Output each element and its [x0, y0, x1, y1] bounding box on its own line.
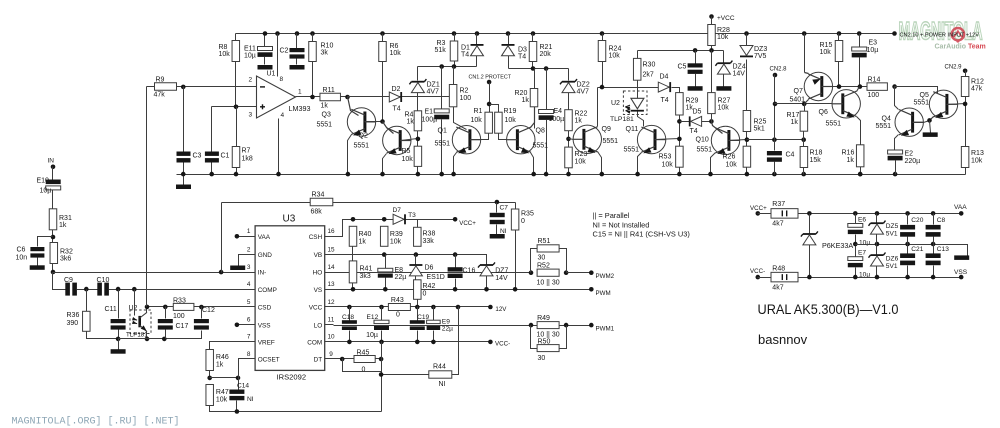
wire	[711, 46, 713, 51]
junction C17	[163, 305, 168, 310]
svg-text:1k: 1k	[59, 222, 67, 229]
svg-text:MAGNITOLA[.ORG] [.RU] [.NET]: MAGNITOLA[.ORG] [.RU] [.NET]	[12, 416, 180, 428]
capacitor E4	[539, 110, 554, 120]
capacitor C21	[900, 253, 915, 265]
wire	[746, 132, 748, 147]
junction ground rail	[566, 172, 571, 177]
pin 1 U3 VAA	[248, 236, 256, 238]
wire down to IN-	[221, 203, 223, 273]
svg-text:VB: VB	[314, 252, 323, 259]
svg-text:8: 8	[280, 76, 284, 83]
junction R52 right	[564, 270, 569, 275]
svg-text:R45: R45	[357, 350, 370, 357]
svg-text:R41: R41	[360, 266, 373, 273]
svg-text:R46: R46	[216, 354, 229, 361]
junction R8-R7	[234, 105, 239, 110]
junction	[263, 31, 268, 36]
wire	[118, 339, 120, 350]
resistor R20	[530, 89, 538, 107]
svg-text:COMP: COMP	[258, 287, 277, 294]
pin 8 U3 OCSET	[248, 358, 256, 360]
node VCC- terminal	[488, 340, 493, 345]
svg-text:|| = Parallel: || = Parallel	[593, 211, 630, 220]
svg-text:1k: 1k	[359, 239, 367, 246]
wire	[52, 230, 54, 243]
wire R20 to Q8 collector	[534, 107, 536, 129]
resistor R5	[414, 146, 422, 166]
ground under C11	[111, 349, 126, 354]
svg-text:C5: C5	[678, 64, 687, 71]
svg-text:R29: R29	[686, 98, 699, 105]
capacitor C20	[900, 225, 915, 237]
junction R25-R26-Q10	[745, 137, 750, 142]
junction R32 bottom	[51, 270, 56, 275]
junction C19	[415, 340, 420, 345]
svg-text:VCC+: VCC+	[750, 205, 767, 212]
svg-text:PWM2: PWM2	[596, 273, 615, 280]
svg-text:VAA: VAA	[258, 234, 271, 241]
capacitor C6	[30, 247, 44, 258]
svg-text:E8: E8	[395, 267, 404, 274]
junction C9-C10-R36	[84, 287, 89, 292]
svg-text:100µ: 100µ	[422, 117, 438, 124]
svg-text:16: 16	[327, 228, 335, 235]
svg-text:R51: R51	[538, 238, 551, 245]
svg-text:Q5: Q5	[920, 92, 929, 99]
junction ground rail	[772, 172, 777, 177]
wire	[352, 283, 354, 290]
junction ground rail	[209, 172, 214, 177]
wire	[508, 56, 510, 69]
resistor R46	[206, 350, 214, 371]
svg-text:1k: 1k	[791, 119, 799, 126]
wire	[296, 59, 298, 65]
svg-text:T4: T4	[690, 128, 698, 135]
resistor R33	[173, 303, 194, 310]
wire	[695, 74, 697, 87]
svg-text:5551: 5551	[914, 100, 930, 107]
svg-text:5551: 5551	[697, 147, 713, 154]
wire	[486, 276, 488, 290]
junction R45 left	[340, 357, 345, 362]
junction	[544, 66, 549, 71]
ground under C7	[490, 234, 505, 239]
wire Q9 emitter to ground	[598, 152, 602, 175]
svg-text:R12: R12	[971, 79, 984, 86]
junction	[452, 64, 457, 69]
wire	[895, 161, 897, 175]
pin 15 U3 VB	[325, 254, 334, 256]
wire	[933, 266, 935, 278]
wire	[602, 34, 604, 41]
junction Q5 emitter Q4 base	[927, 118, 932, 123]
wire	[746, 34, 748, 46]
wire Q7 emitter	[805, 73, 809, 74]
svg-text:E9: E9	[442, 319, 450, 326]
resistor R12	[961, 77, 969, 97]
junction E3-Q6 collector	[858, 84, 863, 89]
svg-text:30: 30	[538, 255, 546, 262]
wire Q4 base	[913, 121, 930, 123]
svg-text:1k: 1k	[216, 362, 224, 369]
capacitor C19	[410, 320, 425, 330]
resistor R25	[743, 111, 751, 132]
svg-text:10: 10	[327, 334, 335, 341]
svg-text:CN2.10 + POWER INPUT +12V: CN2.10 + POWER INPUT +12V	[900, 32, 980, 38]
wire	[183, 87, 185, 152]
svg-text:C3: C3	[193, 153, 202, 160]
svg-text:R4: R4	[405, 112, 414, 119]
svg-text:VCC-: VCC-	[495, 341, 510, 348]
wire Q3 collector	[348, 97, 359, 116]
junction R49 right	[564, 323, 569, 328]
junction ground rail	[276, 172, 281, 177]
junction	[439, 64, 444, 69]
svg-text:1k: 1k	[407, 119, 415, 126]
svg-text:R2: R2	[460, 88, 469, 95]
svg-text:3k3: 3k3	[360, 273, 371, 280]
resistor R21	[529, 42, 537, 62]
svg-text:R13: R13	[971, 150, 984, 157]
junction R49 left	[529, 323, 534, 328]
wire	[264, 34, 266, 47]
wire	[534, 69, 536, 89]
junction	[857, 31, 862, 36]
wire R15 to Q7 base	[838, 62, 840, 87]
svg-text:R21: R21	[540, 44, 553, 51]
capacitor C7	[490, 213, 505, 224]
wire D5 row	[680, 121, 712, 123]
junction Q7-R17	[802, 102, 807, 107]
wire CN2.8 to feedback	[774, 75, 776, 140]
capacitor E7	[848, 257, 863, 268]
svg-text:1k8: 1k8	[242, 156, 253, 163]
wire Q5 base	[947, 104, 966, 105]
wire COMP net	[109, 289, 248, 291]
watermark red circle logo	[952, 28, 964, 43]
svg-text:D3: D3	[518, 47, 527, 54]
node VSS terminal	[959, 275, 964, 280]
wire R10 to comparator output	[312, 62, 314, 97]
resistor R36	[83, 311, 91, 331]
wire DT	[334, 358, 355, 360]
junction R44 riser	[456, 305, 461, 310]
capacitor E8	[378, 268, 393, 277]
junction DZ7	[484, 287, 489, 292]
node PWM terminal	[589, 287, 594, 292]
wire U2 collector	[146, 307, 148, 313]
svg-text:LM393: LM393	[289, 104, 311, 113]
junction VAA wire	[807, 211, 812, 216]
node PWM2 terminal	[589, 270, 594, 275]
node CN2.9 terminal	[963, 69, 968, 74]
svg-text:Q3: Q3	[322, 112, 331, 119]
diode D2	[389, 92, 402, 102]
wire mid reference	[856, 245, 968, 256]
capacitor C5	[688, 63, 703, 74]
pin 10 U3 COM	[325, 341, 334, 343]
junction	[379, 372, 384, 377]
wire R6 down	[382, 62, 384, 122]
svg-text:100µ: 100µ	[549, 116, 565, 123]
junction CN2.8 base wire	[773, 102, 778, 107]
capacitor C18	[342, 320, 357, 330]
junction R17-R18	[801, 137, 806, 142]
wire to Q5 collector	[895, 87, 938, 94]
svg-text:IRS2092: IRS2092	[277, 373, 307, 382]
svg-text:R17: R17	[787, 112, 800, 119]
junction ground rail	[801, 172, 806, 177]
svg-text:4V7: 4V7	[577, 89, 590, 96]
svg-text:E2: E2	[905, 151, 914, 158]
svg-text:Q2: Q2	[359, 133, 368, 140]
wire	[568, 168, 570, 175]
svg-text:C17: C17	[176, 323, 189, 330]
wire	[52, 167, 54, 180]
svg-text:D5: D5	[693, 109, 702, 116]
svg-text:R43: R43	[391, 297, 404, 304]
resistor R42	[414, 280, 422, 300]
wire	[746, 168, 748, 175]
wire	[568, 131, 570, 148]
svg-text:R15: R15	[820, 42, 833, 49]
svg-text:T4: T4	[461, 52, 469, 59]
svg-text:C11: C11	[105, 306, 117, 313]
wire Q3 emitter to ground	[348, 135, 352, 175]
svg-text:10k: 10k	[505, 117, 517, 124]
wire to non-inverting input	[212, 106, 257, 108]
wire	[855, 268, 857, 278]
wire CSH net	[334, 220, 456, 237]
svg-text:GND: GND	[258, 252, 273, 259]
wire +12V rail	[236, 33, 895, 35]
junction ground rail	[893, 172, 898, 177]
transistor Q4	[895, 108, 923, 138]
junction	[380, 31, 385, 36]
junction R33-C12	[199, 305, 204, 310]
svg-text:3: 3	[249, 112, 253, 119]
wire	[415, 276, 417, 280]
resistor R31	[49, 209, 57, 230]
wire	[496, 225, 498, 235]
transistor Q3	[347, 108, 375, 138]
ground at U3 GND	[230, 266, 245, 271]
svg-text:10 || 30: 10 || 30	[537, 280, 560, 287]
wire U1 pin8 supply	[277, 34, 279, 77]
wire Q11 emitter to ground	[638, 153, 642, 175]
wire	[455, 255, 457, 268]
resistor R38	[414, 227, 422, 246]
junction VSS wire	[905, 275, 910, 280]
junction E9	[431, 305, 436, 310]
wire	[236, 168, 238, 175]
capacitor C8	[926, 225, 941, 237]
zener DZ2	[560, 79, 577, 93]
resistor R22	[565, 110, 573, 131]
diode D7	[393, 214, 406, 224]
svg-text:CN1.2 PROTECT: CN1.2 PROTECT	[469, 75, 512, 81]
capacitor E12	[374, 320, 389, 330]
svg-text:47k: 47k	[154, 92, 166, 99]
wire R1 to Q1 base	[471, 134, 489, 140]
wire	[532, 34, 534, 42]
svg-text:R20: R20	[515, 90, 528, 97]
svg-text:10k: 10k	[609, 53, 621, 60]
wire	[803, 132, 805, 140]
junction ground rail	[234, 172, 239, 177]
svg-text:CN2.8: CN2.8	[770, 67, 788, 73]
node IN terminal	[51, 165, 56, 170]
resistor R2	[449, 85, 457, 107]
junction E9	[431, 340, 436, 345]
svg-text:10k: 10k	[971, 158, 983, 165]
resistor R19	[495, 112, 503, 133]
svg-text:5: 5	[247, 299, 251, 306]
wire comparator output	[296, 96, 348, 98]
transistor Q2	[383, 126, 411, 156]
capacitor C11	[111, 319, 126, 330]
wire	[508, 34, 510, 45]
wire	[417, 167, 419, 175]
transistor Q1	[452, 126, 480, 156]
resistor R3	[450, 41, 458, 61]
junction D5 cathode	[677, 119, 682, 124]
junction C18	[347, 340, 352, 345]
svg-text:DZ4: DZ4	[733, 64, 746, 71]
junction ground rail	[531, 172, 536, 177]
node VCC+ terminal	[453, 217, 458, 222]
capacitor E6	[848, 224, 863, 235]
svg-text:47k: 47k	[971, 86, 983, 93]
svg-text:CSD: CSD	[258, 305, 272, 312]
svg-text:D2: D2	[392, 86, 401, 93]
junction E8	[383, 287, 388, 292]
wire R50 loop left	[531, 326, 538, 349]
wire DZ2 to R22	[568, 93, 570, 110]
svg-text:11: 11	[328, 317, 335, 324]
wire	[385, 255, 387, 269]
svg-text:C20: C20	[911, 217, 923, 224]
svg-text:51k: 51k	[435, 47, 447, 54]
diode P6KE33A	[801, 231, 818, 245]
resistor R47	[206, 385, 214, 406]
wire	[209, 371, 211, 378]
wire DZ1 to R4	[417, 93, 419, 111]
wire	[965, 71, 967, 77]
capacitor C9	[65, 283, 77, 296]
junction DZ5-DZ6	[875, 242, 880, 247]
svg-text:4: 4	[247, 281, 251, 288]
wire R44 left	[382, 374, 429, 376]
wire	[965, 168, 967, 175]
junction	[310, 31, 315, 36]
junction VSS wire	[853, 275, 858, 280]
junction R39	[382, 217, 387, 222]
svg-text:NI: NI	[247, 396, 254, 403]
svg-text:R33: R33	[173, 298, 186, 305]
wire	[235, 34, 237, 41]
wire	[417, 307, 419, 321]
svg-text:100: 100	[173, 313, 185, 320]
junction	[162, 337, 167, 342]
junction ground rail	[544, 172, 549, 177]
wire	[859, 34, 861, 47]
svg-text:U2: U2	[611, 100, 620, 107]
wire	[454, 34, 456, 41]
wire ground row	[119, 331, 202, 339]
wire R51 loop right	[560, 249, 567, 273]
svg-text:R47: R47	[216, 389, 229, 396]
svg-text:100: 100	[460, 95, 472, 102]
transistor Q11	[637, 125, 665, 155]
junction	[452, 31, 457, 36]
wire	[803, 140, 805, 147]
svg-text:33k: 33k	[423, 238, 435, 245]
wire	[723, 75, 725, 87]
wire	[385, 278, 387, 290]
svg-text:5V1: 5V1	[886, 231, 898, 238]
svg-text:5551: 5551	[435, 141, 451, 148]
svg-text:DZ6: DZ6	[886, 256, 899, 263]
wire	[349, 331, 351, 342]
optocoupler U2 phototransistor box	[130, 310, 151, 334]
svg-text:2: 2	[249, 77, 253, 84]
wire R8 to +input	[235, 62, 237, 107]
wire	[711, 17, 713, 25]
svg-text:R9: R9	[156, 77, 165, 84]
wire D4 node	[598, 87, 659, 89]
wire	[211, 163, 213, 175]
wire	[711, 114, 713, 122]
svg-text:R35: R35	[521, 211, 534, 218]
resistor R11	[320, 93, 341, 101]
junction	[506, 31, 511, 36]
junction R27-D5-Q10	[709, 119, 714, 124]
wire	[417, 131, 419, 147]
wire	[838, 34, 840, 41]
svg-text:7: 7	[247, 334, 251, 341]
capacitor E11	[258, 47, 273, 57]
svg-text:E4: E4	[554, 108, 563, 115]
junction VAA wire	[875, 211, 880, 216]
resistor R14	[867, 83, 887, 91]
svg-text:C13: C13	[937, 246, 949, 253]
svg-text:30: 30	[538, 355, 546, 362]
wire	[417, 67, 419, 81]
svg-text:5551: 5551	[826, 121, 842, 128]
junction U2 collector node	[145, 305, 150, 310]
wire	[930, 121, 931, 133]
svg-text:DT: DT	[314, 357, 323, 364]
resistor R45	[354, 356, 375, 363]
junction OCSET-C14	[236, 376, 241, 381]
resistor R4	[414, 111, 422, 131]
resistor R50	[537, 345, 559, 352]
svg-text:10µ: 10µ	[366, 332, 378, 339]
svg-text:NI: NI	[500, 228, 507, 235]
svg-text:R27: R27	[718, 98, 731, 105]
junction R29-R53-Q11	[677, 137, 682, 142]
svg-text:Q11: Q11	[626, 126, 639, 133]
wire	[376, 358, 382, 360]
svg-text:D7: D7	[393, 207, 402, 214]
svg-text:5551: 5551	[317, 122, 333, 129]
junction ground rail	[181, 172, 186, 177]
wire Q7 base row	[822, 86, 867, 88]
wire	[933, 214, 935, 225]
junction R35	[513, 287, 518, 292]
wire	[183, 163, 185, 175]
